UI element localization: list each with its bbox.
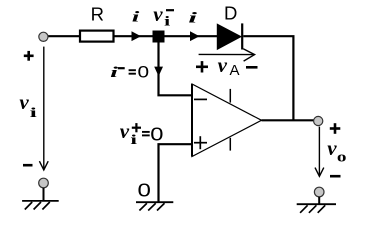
op-amp left edge (thick) xyxy=(191,84,193,157)
diode D triangle xyxy=(217,24,241,49)
current arrow i (left) xyxy=(132,31,142,41)
svg-text:D: D xyxy=(224,3,237,24)
wire: node down to op-amp inverting input xyxy=(159,43,193,96)
svg-text:0: 0 xyxy=(150,124,163,144)
label v_i xyxy=(19,90,37,121)
voltage arrow v_i xyxy=(39,47,48,170)
label - (input) xyxy=(23,164,33,167)
voltage arrow v_o xyxy=(315,127,324,177)
op-amp negative supply tick xyxy=(229,138,231,151)
wire: input terminal to resistor xyxy=(46,35,80,37)
label v_A xyxy=(218,53,240,79)
wire: op-amp non-inverting input to ground xyxy=(159,144,193,202)
wire: op-amp output xyxy=(262,119,315,121)
wire: cathode to output corner (feedback top) xyxy=(243,36,293,120)
svg-text:R: R xyxy=(91,4,104,25)
label + (output) xyxy=(330,123,341,134)
ground (reference, middle) xyxy=(136,202,173,210)
resistor R xyxy=(80,31,114,42)
label - (output) xyxy=(330,175,341,178)
ground (input) xyxy=(22,188,59,210)
svg-text:0: 0 xyxy=(138,63,150,81)
ground (output) xyxy=(297,197,336,213)
label - (cathode side of v_A) xyxy=(246,66,258,69)
label v_i^+ = 0 xyxy=(120,119,164,148)
current arrow i- = 0 (down) xyxy=(154,67,163,77)
op-amp non-inverting input + symbol xyxy=(194,136,207,149)
svg-text:0: 0 xyxy=(138,181,151,201)
svg-text:i: i xyxy=(30,106,37,121)
voltage arrow v_A xyxy=(199,49,255,61)
op-amp U1 triangle xyxy=(192,84,262,157)
op-amp inverting input - symbol xyxy=(194,98,207,100)
svg-text:i: i xyxy=(164,15,170,30)
svg-text:v: v xyxy=(218,53,228,77)
label v_o xyxy=(327,136,346,165)
terminal: output bottom xyxy=(314,187,324,197)
terminal: input bottom xyxy=(39,178,49,188)
svg-text:v: v xyxy=(19,90,29,114)
svg-text:i: i xyxy=(130,133,137,148)
wire: resistor to node xyxy=(114,35,153,37)
label v_i^- xyxy=(153,2,174,30)
node v_i^- (junction square) xyxy=(153,31,165,43)
label + (anode side of v_A) xyxy=(196,61,208,72)
diode D cathode bar xyxy=(241,23,243,49)
svg-text:v: v xyxy=(327,136,337,160)
svg-text:A: A xyxy=(230,62,240,79)
op-amp positive supply tick xyxy=(229,89,231,103)
wire: node to diode xyxy=(165,35,218,37)
terminal: input top xyxy=(39,32,48,41)
svg-text:o: o xyxy=(337,150,347,166)
label i-=0 xyxy=(110,63,149,81)
terminal: output top xyxy=(314,116,323,125)
label + (input) xyxy=(24,51,34,61)
svg-text:v: v xyxy=(120,119,130,143)
current arrow i (right) xyxy=(190,31,200,41)
svg-text:v: v xyxy=(153,2,163,26)
